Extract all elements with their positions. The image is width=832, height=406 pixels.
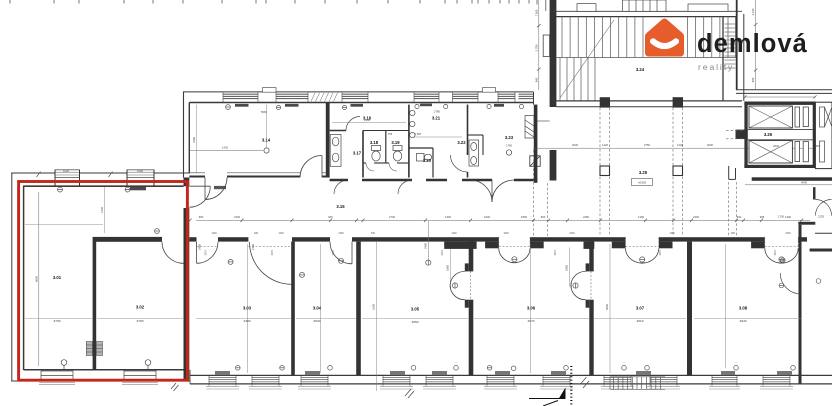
elevator cab 1 [749,106,792,128]
svg-text:450: 450 [816,144,821,148]
wall 3.14 / sanitary block [326,103,330,178]
door into 3.16 [346,117,360,131]
svg-text:4950: 4950 [412,320,419,324]
svg-text:3180: 3180 [192,137,196,143]
svg-text:2030: 2030 [572,143,578,147]
svg-text:3.06: 3.06 [527,306,536,311]
stair direction line [560,20,614,98]
svg-text:5050: 5050 [605,304,609,310]
radiator 3.01 below window [130,187,146,190]
far right walls [815,232,832,234]
svg-text:900: 900 [751,77,755,82]
svg-text:3700: 3700 [137,319,144,323]
stair treads upper flight [562,17,736,58]
svg-text:900: 900 [328,215,333,219]
svg-text:2640: 2640 [773,144,779,148]
partition 3.16/3.17 horizontal [330,130,346,132]
radiators [215,371,792,375]
door circles 3.03/3.04 [228,258,343,277]
circles below wing wall [226,104,524,109]
svg-text:960: 960 [731,232,736,235]
svg-text:1970: 1970 [271,250,274,256]
right outer wall top section [736,0,738,90]
svg-text:1300: 1300 [785,232,791,235]
dim chain left of stairwell [538,0,540,90]
3.25 dim line [533,147,832,149]
urinals 3.21 [410,110,415,137]
door dim annotations above rooms [205,232,792,256]
svg-text:3.07: 3.07 [636,306,645,311]
svg-text:2400: 2400 [423,243,427,249]
svg-text:demlová: demlová [697,30,808,58]
3.23 door second leaf [470,180,492,202]
window (bottom, room 3.02) [124,371,156,380]
logo house icon [649,22,681,53]
hollow columns [600,166,610,176]
svg-text:2400: 2400 [693,215,699,219]
svg-text:3.18: 3.18 [370,140,379,145]
lower flight treads [560,58,595,101]
svg-text:1970: 1970 [659,250,662,256]
svg-text:1425: 1425 [222,146,228,150]
svg-text:3.20: 3.20 [423,158,432,163]
right wall of red section [184,208,190,381]
toilet 3.20 [417,154,432,162]
3.22 partition [468,134,484,136]
stair top wall [550,11,742,16]
stall front wall [363,162,409,164]
niche doors (3.06,3.07,3.08 top) [499,248,798,263]
interior vertical dim lines [248,242,726,391]
stair-down hatch [610,377,665,390]
wall right of stalls [408,105,410,178]
svg-text:2030: 2030 [707,143,713,147]
sanitary dims [332,122,406,124]
svg-text:reality: reality [698,62,734,72]
stair left wall [550,0,557,107]
svg-text:1420: 1420 [677,143,683,147]
svg-text:2480: 2480 [198,244,202,250]
landing line [556,57,736,59]
vertical dim right [755,0,757,90]
red highlight rectangle [19,182,188,381]
door 3.20 [398,180,412,194]
counterweight boxes [795,107,808,162]
room width dim lines [25,225,801,319]
svg-text:4,100: 4,100 [751,8,755,15]
stair inner right wall [722,17,724,101]
svg-text:2450: 2450 [583,215,589,219]
left stub below elevators [729,166,736,180]
svg-text:1300: 1300 [669,232,675,235]
bottom exterior wall [190,375,832,384]
stall wall 3.18/3.19 [385,131,387,164]
svg-text:3.21: 3.21 [432,116,441,121]
sanitary block right wall [534,105,538,183]
svg-text:2750: 2750 [644,143,650,147]
column circle in 3.01 [155,229,160,234]
svg-text:1500: 1500 [137,169,143,173]
door 3.17 to corridor [334,180,348,194]
svg-text:4970: 4970 [528,319,535,323]
dim column with circle [427,221,429,260]
svg-text:+8,500: +8,500 [638,181,647,185]
svg-text:3700: 3700 [54,319,61,323]
svg-text:3.15: 3.15 [336,204,345,209]
svg-text:1970: 1970 [332,250,335,256]
svg-text:1300: 1300 [785,215,791,219]
svg-text:1600: 1600 [484,215,490,219]
svg-text:4940: 4940 [740,319,747,323]
section break mark [171,383,179,391]
svg-text:2135: 2135 [100,207,104,213]
svg-text:1300: 1300 [451,232,457,235]
window (bottom, room 3.01) [41,371,73,380]
wing top exterior wall [183,92,534,103]
svg-text:1970: 1970 [554,250,557,256]
3.23 sink unit hatch [525,116,534,139]
corridor top wall [189,176,329,178]
svg-text:965: 965 [760,215,765,219]
corridor west radiator [214,186,226,189]
svg-text:3.24: 3.24 [636,67,645,72]
sink counter 3.17 [330,135,341,167]
bottom exterior wall of red section [11,370,190,381]
far right fan door [780,273,801,294]
wing left wall [184,92,190,178]
wall 3.01/3.02 divider [93,242,97,370]
svg-text:1420: 1420 [602,143,608,147]
toilet 3.18 [372,146,381,162]
svg-text:3.17: 3.17 [353,151,362,156]
lobby wall right of elevators [752,177,832,181]
section arrow [529,388,566,406]
svg-text:1300: 1300 [569,232,575,235]
left exterior wall [12,173,24,382]
wall 3.21/3.22 [467,105,469,155]
vertical dimension 8000 [34,192,39,366]
window (red section top, west) [55,170,80,178]
doors bottom rooms [197,242,353,284]
bottom windows (striped glazing) [209,377,790,381]
dim ticks on band [37,172,113,178]
svg-text:940: 940 [534,77,538,82]
svg-text:3.22: 3.22 [457,140,466,145]
svg-text:1300: 1300 [445,215,451,219]
svg-text:4645: 4645 [801,180,807,184]
svg-text:2730: 2730 [389,215,395,219]
side doors in dividers (3.05, 3.06) [465,263,590,307]
svg-text:1865: 1865 [565,265,569,271]
pier blocks at door niches [444,242,765,249]
svg-text:1700: 1700 [778,215,784,219]
dashes near elevators [726,130,744,139]
door 3.14 west (swings into corridor) [205,178,227,200]
door 3.02 [162,242,184,263]
svg-text:3.02: 3.02 [136,305,145,310]
radiators below wing windows [235,104,504,107]
step at red/east bottom junction [189,370,191,384]
svg-text:1970: 1970 [774,250,777,256]
svg-text:1760: 1760 [506,144,512,148]
svg-text:1020: 1020 [63,169,69,173]
svg-text:1300: 1300 [211,232,217,235]
dim chain in 3.01 [104,187,106,233]
dotted section line [570,366,572,406]
window (red section top, east) [127,170,154,178]
svg-text:1865: 1865 [446,265,450,271]
pier hatches between wing windows [311,93,338,102]
svg-text:3.05: 3.05 [411,307,420,312]
door 3.14 east (swings into room) [300,156,322,178]
svg-text:2780: 2780 [434,110,440,114]
svg-text:3.23: 3.23 [505,135,514,140]
circles bottom wall [236,366,796,371]
wall break symbol [581,377,590,388]
room 3.02 top wall [93,237,162,242]
wall above elevators [736,90,832,94]
svg-text:1970: 1970 [441,250,444,256]
svg-text:1300: 1300 [278,232,284,235]
svg-text:7,005: 7,005 [534,9,538,16]
separator stub [736,130,748,139]
svg-text:8000: 8000 [34,276,38,282]
3.22 sinks [469,140,479,166]
svg-text:3130: 3130 [234,215,240,219]
svg-text:2235: 2235 [818,215,824,219]
svg-text:2,790: 2,790 [534,44,538,51]
svg-text:1800: 1800 [521,215,527,219]
radiator hatches by divider [86,342,102,356]
dim line above elevators [745,96,815,98]
svg-text:4380: 4380 [244,319,251,323]
svg-text:650: 650 [199,215,204,219]
svg-text:3.26: 3.26 [764,132,773,137]
svg-text:3.25: 3.25 [639,170,648,175]
sanitary block bottom wall [330,179,538,182]
svg-text:1,597: 1,597 [415,132,422,136]
svg-text:2100: 2100 [251,244,255,250]
shaft square with diagonal [530,156,540,167]
room divider walls [291,225,801,384]
svg-text:1300: 1300 [638,215,644,219]
svg-text:3.01: 3.01 [53,275,62,280]
toilet 3.19 [393,146,402,162]
stair top windows [577,0,728,11]
svg-text:500: 500 [541,215,546,219]
service ladder in right duct [725,24,736,68]
stall doors [366,163,397,171]
stair bottom wall [550,101,742,107]
wing top windows (striped glazing) [223,94,533,98]
svg-text:5100: 5100 [372,304,376,310]
svg-text:500: 500 [737,215,742,219]
svg-text:4010: 4010 [637,319,644,323]
svg-text:1970: 1970 [205,250,208,256]
far right shaft [815,102,832,168]
top exterior wall of red section [11,173,190,186]
window sills [206,387,793,389]
svg-text:1300: 1300 [338,232,344,235]
svg-text:753: 753 [388,132,393,136]
top dimension tick row [10,0,546,11]
svg-text:2520: 2520 [314,319,321,323]
columns in stair bottom wall [600,97,610,107]
logo smile [653,41,676,46]
partition left of stalls [362,131,364,178]
room top wall segments [189,237,807,241]
svg-text:500: 500 [371,232,376,235]
WC 3.20 box [409,148,433,178]
svg-text:3.08: 3.08 [739,306,748,311]
door west end of corridor [189,186,210,207]
elevator cab 2 [749,141,792,164]
svg-text:3.19: 3.19 [391,140,400,145]
svg-text:480: 480 [254,232,259,235]
door 3.23 [492,180,514,202]
window jamb ticks [209,376,790,386]
symbol circles [58,187,151,370]
svg-text:3.16: 3.16 [363,116,372,121]
dim stubs near doors [450,248,569,287]
svg-text:1800: 1800 [503,232,509,235]
break mark mid [405,389,414,398]
corridor dimension line [196,219,810,221]
